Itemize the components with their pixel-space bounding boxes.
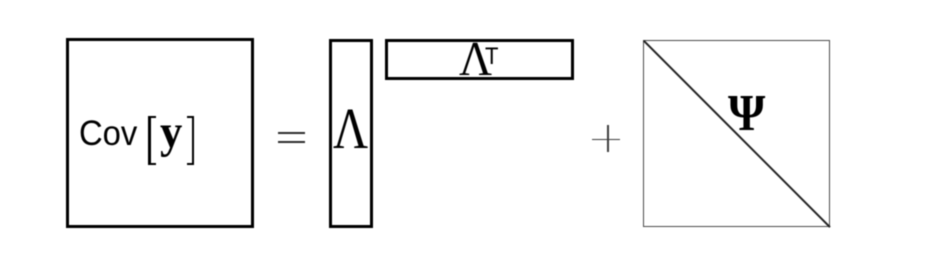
vector y (160, 109, 184, 156)
matrix box Lambda (tall) (329, 39, 373, 228)
bracket [ top arm (148, 116, 156, 118)
bracket ] top arm (187, 116, 195, 118)
bracket ] bottom arm (187, 163, 195, 165)
label Psi (728, 88, 769, 140)
label Lambda (333, 100, 375, 158)
bracket [ stem (148, 116, 151, 165)
matrix box Lambda-T (wide) (385, 39, 574, 80)
label T superscript (485, 46, 499, 70)
plus sign (592, 139, 621, 141)
bracket ] stem (192, 116, 195, 165)
label Cov (79, 116, 142, 151)
matrix box Cov[y] (66, 38, 254, 227)
label Lambda (459, 36, 494, 84)
diagonal line (643, 40, 831, 228)
matrix box Psi (diagonal) (643, 40, 830, 228)
equals sign (278, 132, 305, 134)
bracket [ bottom arm (148, 163, 156, 165)
